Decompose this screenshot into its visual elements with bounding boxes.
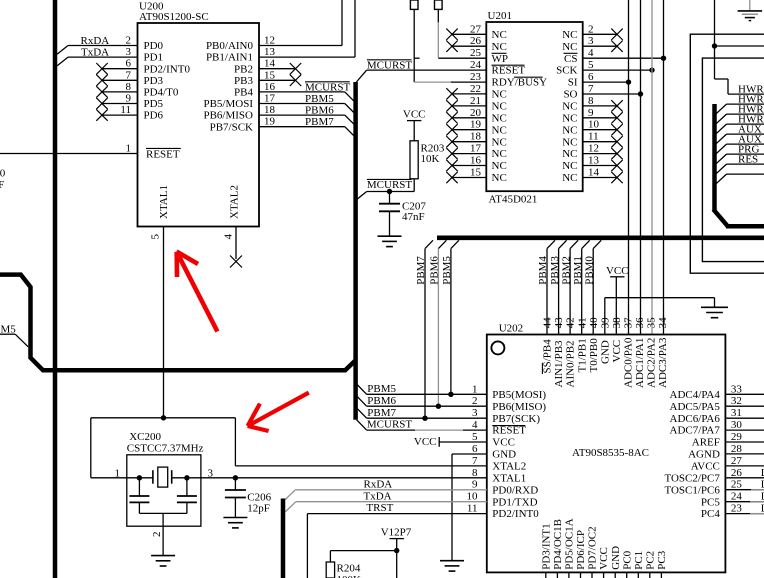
svg-text:PD5/OC1A: PD5/OC1A (564, 518, 576, 569)
annotation arrow 2 (248, 393, 309, 431)
bus entry (716, 114, 727, 124)
no-connect stub U201 pin 10 (583, 129, 617, 131)
wire SO vertical to U202 pin36 (640, 0, 642, 335)
wire HWR row (727, 103, 764, 105)
bus B3 (mid vertical) (353, 82, 358, 420)
svg-text:NC: NC (562, 160, 577, 172)
wire XTAL1 node horizontal (91, 417, 236, 419)
svg-text:21: 21 (470, 95, 481, 107)
svg-text:3: 3 (126, 46, 132, 58)
svg-text:F: F (0, 179, 4, 191)
svg-text:RESET: RESET (492, 65, 526, 77)
wire U200 pin12 to top (259, 45, 342, 47)
svg-text:PD0/RXD: PD0/RXD (492, 484, 538, 496)
svg-text:TOSC2/PC7: TOSC2/PC7 (664, 472, 720, 484)
svg-text:T1/PB1: T1/PB1 (576, 338, 588, 372)
wire RESET (U200 pin1) (0, 153, 138, 155)
svg-text:CS: CS (564, 53, 577, 65)
svg-text:NC: NC (492, 89, 507, 101)
wire TxDA (57, 57, 68, 66)
svg-text:PD0: PD0 (144, 40, 164, 52)
svg-text:C206: C206 (247, 491, 271, 503)
wire GND pin39 to ground (604, 298, 606, 335)
svg-text:PB2: PB2 (234, 63, 253, 75)
U202 bottom pin stub (568, 572, 570, 578)
wire GND (U202 pin6) (452, 453, 487, 455)
svg-text:PB7(SCK): PB7(SCK) (492, 413, 540, 425)
svg-text:5: 5 (150, 234, 162, 240)
svg-text:NC: NC (562, 41, 577, 53)
wire PBM3 vertical (559, 240, 567, 248)
wire PBM1 vertical (582, 240, 590, 248)
wire HWR row (727, 133, 764, 135)
svg-text:14: 14 (588, 167, 600, 179)
svg-text:VCC: VCC (414, 436, 437, 448)
svg-text:PB6/MISO: PB6/MISO (203, 110, 253, 122)
wire PBM0 vertical (593, 240, 601, 248)
wire PBM5 to U202 pin1 (357, 384, 367, 394)
svg-text:PD6/ICP: PD6/ICP (575, 530, 587, 570)
svg-text:PD5: PD5 (144, 98, 164, 110)
wire PBM7 (U200) (259, 126, 345, 128)
svg-text:NC: NC (492, 172, 507, 184)
svg-text:ADC0/PA0: ADC0/PA0 (623, 337, 635, 388)
no-connect stub U201 pin 2 (583, 33, 617, 35)
wire HWR row (727, 113, 764, 115)
wire U202 pin 32 right (725, 405, 764, 407)
svg-text:NC: NC (492, 112, 507, 124)
svg-text:2: 2 (588, 23, 594, 35)
svg-text:ADC5/PA5: ADC5/PA5 (670, 401, 721, 413)
net M5 bus entry (0, 333, 15, 335)
svg-text:RES_IN: RES_IN (738, 154, 764, 166)
frame outer (690, 34, 764, 273)
svg-text:15: 15 (264, 69, 276, 81)
svg-text:1: 1 (472, 383, 478, 395)
svg-text:3: 3 (588, 35, 594, 47)
svg-text:AREF: AREF (692, 437, 720, 449)
no-connect stub U201 pin 15 (452, 177, 486, 179)
svg-text:43: 43 (553, 317, 565, 329)
svg-text:36: 36 (634, 317, 646, 329)
svg-text:PBM3: PBM3 (549, 256, 561, 285)
ground (XC200 pin2) (151, 555, 175, 557)
svg-text:24: 24 (731, 491, 743, 503)
wire top right vertical (714, 0, 716, 79)
crystal element (152, 470, 154, 484)
wire CS (583, 57, 664, 59)
svg-text:VCC: VCC (492, 437, 515, 449)
svg-text:1: 1 (126, 143, 132, 155)
wire to XC200 pin1 (90, 418, 92, 478)
svg-text:35: 35 (646, 317, 658, 329)
svg-text:U201: U201 (488, 10, 512, 22)
overline BUSY (514, 76, 543, 78)
no-connect stub U201 pin 22 (452, 93, 486, 95)
svg-text:PBM0: PBM0 (583, 256, 595, 285)
svg-text:PC5: PC5 (701, 496, 720, 508)
svg-text:NC: NC (562, 112, 577, 124)
mcu IC U202 box (487, 335, 726, 573)
svg-text:VCC: VCC (598, 547, 610, 570)
no-connect stub U200 pin 14 (259, 68, 296, 70)
wire U202 pin 24 right (725, 501, 764, 503)
svg-text:41: 41 (576, 317, 588, 328)
wire U202 pin 33 right (725, 393, 764, 395)
svg-text:13: 13 (264, 46, 276, 58)
wire MCURST (RC node) (356, 192, 366, 200)
svg-text:100K: 100K (337, 574, 362, 578)
svg-text:1: 1 (115, 467, 121, 479)
wire HWR row (727, 153, 764, 155)
svg-text:9: 9 (588, 107, 594, 119)
U202 bottom pin stub (626, 572, 628, 578)
svg-text:PB3: PB3 (234, 75, 253, 87)
ground (U202 pin39) (701, 306, 728, 308)
svg-text:25: 25 (470, 47, 482, 59)
wire RxDA (57, 46, 68, 55)
svg-text:44: 44 (542, 317, 554, 329)
ground (C206) (223, 517, 247, 519)
svg-text:11: 11 (120, 104, 131, 116)
wire U202 pin 23 right (725, 513, 764, 515)
resistor R203 (410, 141, 418, 179)
node V12P7 junction (394, 548, 399, 553)
svg-text:18: 18 (470, 131, 482, 143)
svg-text:22: 22 (470, 83, 481, 95)
svg-text:GND: GND (492, 449, 516, 461)
svg-text:38: 38 (611, 317, 623, 329)
svg-text:37: 37 (623, 317, 635, 329)
svg-text:SCK: SCK (556, 65, 577, 77)
svg-text:RxDA: RxDA (81, 35, 110, 47)
wire U202 pin 28 right (725, 453, 764, 455)
svg-text:AT45D021: AT45D021 (489, 193, 538, 205)
overline RESET (492, 64, 525, 66)
wire TRST to U202 pin11 (306, 514, 308, 578)
wire WP net (437, 9, 439, 22)
svg-text:11: 11 (588, 131, 599, 143)
svg-text:PD6: PD6 (144, 110, 164, 122)
svg-text:7: 7 (472, 455, 478, 467)
svg-text:SI: SI (568, 77, 578, 89)
svg-text:23: 23 (470, 71, 482, 83)
svg-text:7: 7 (588, 83, 594, 95)
svg-text:PD4/OC1B: PD4/OC1B (552, 519, 564, 570)
svg-text:T0/PB0: T0/PB0 (588, 338, 600, 373)
no-connect stub U200 pin 9 (102, 103, 138, 105)
wire RDY/BUSY net (413, 9, 415, 82)
wire gray right pin24 (750, 501, 764, 503)
wire XTAL2 to U202 pin7 (235, 465, 486, 467)
bus B4 (main horizontal) (437, 236, 764, 241)
wire PBM4 vertical (547, 240, 555, 248)
svg-text:12: 12 (264, 35, 275, 47)
wire HWR row (727, 143, 764, 145)
svg-text:XTAL1: XTAL1 (492, 472, 526, 484)
svg-text:PBM6: PBM6 (305, 105, 334, 117)
capacitor internal right (186, 478, 188, 496)
svg-text:10: 10 (588, 119, 600, 131)
no-connect stub U201 pin 16 (452, 165, 486, 167)
svg-text:4: 4 (223, 234, 235, 240)
wire U200 pin13 to top (259, 56, 355, 58)
svg-text:19: 19 (264, 116, 276, 128)
svg-text:9: 9 (472, 479, 478, 491)
svg-text:33: 33 (731, 383, 743, 395)
wire PBM2 vertical (570, 240, 578, 248)
no-connect stub U200 pin 15 (259, 79, 296, 81)
svg-text:10: 10 (467, 491, 479, 503)
ground (C207) (378, 235, 402, 237)
bus B2 (left elbow to mid bus) (0, 275, 356, 371)
no-connect stub U200 pin 11 (102, 114, 138, 116)
svg-text:V12P7: V12P7 (381, 527, 412, 539)
svg-text:4: 4 (588, 47, 594, 59)
wire PBM6 (U200) (259, 114, 345, 116)
svg-text:ADC1/PA1: ADC1/PA1 (634, 338, 646, 388)
svg-text:RESET: RESET (492, 425, 526, 437)
svg-text:8: 8 (126, 81, 132, 93)
svg-text:NC: NC (562, 101, 577, 113)
wire U202 pin 27 right (725, 465, 764, 467)
no-connect stub U200 pin 6 (102, 68, 138, 70)
bus B1 (left vertical) (53, 0, 58, 578)
svg-text:PBM2: PBM2 (560, 256, 572, 285)
bus B6 (HWR) (712, 104, 717, 211)
wire XTAL1 row to U202 pin8 (172, 477, 487, 479)
no-connect stub U201 pin 13 (583, 165, 617, 167)
svg-text:NC: NC (492, 148, 507, 160)
wire U202 pin 31 right (725, 417, 764, 419)
svg-text:XTAL2: XTAL2 (492, 461, 526, 473)
bus entry (716, 154, 727, 164)
svg-text:XTAL1: XTAL1 (158, 185, 170, 219)
wire gray right pin25 (751, 489, 764, 491)
resistor R204 (326, 562, 334, 578)
svg-text:PBM7: PBM7 (415, 256, 427, 285)
svg-text:VCC: VCC (403, 109, 426, 121)
svg-text:27: 27 (731, 455, 743, 467)
svg-text:NC: NC (562, 29, 577, 41)
wire internal rail (139, 512, 187, 514)
svg-text:6: 6 (588, 71, 594, 83)
no-connect stub U200 pin 8 (102, 91, 138, 93)
bus entry (716, 174, 727, 184)
U202 pin1 indicator circle (491, 341, 504, 354)
svg-text:PB7/SCK: PB7/SCK (210, 121, 253, 133)
wire U202 pin 25 right (725, 489, 764, 491)
svg-text:PBM5: PBM5 (305, 93, 334, 105)
svg-text:AIN0/PB2: AIN0/PB2 (565, 340, 577, 387)
no-connect stub U201 pin 26 (452, 45, 486, 47)
svg-text:VCC: VCC (606, 265, 629, 277)
svg-text:2: 2 (151, 532, 163, 538)
svg-text:PBM1: PBM1 (572, 256, 584, 285)
wire PBM5 (U200) (259, 103, 345, 105)
ground (top right) (749, 0, 751, 10)
svg-text:6: 6 (472, 443, 478, 455)
svg-text:34: 34 (657, 317, 669, 329)
bus entry (716, 144, 727, 154)
svg-text:0: 0 (0, 167, 6, 179)
svg-text:8: 8 (472, 467, 478, 479)
svg-text:NC: NC (492, 41, 507, 53)
wire PBM6 vertical (438, 240, 446, 248)
op IC U200 box (138, 23, 260, 227)
svg-text:2: 2 (126, 35, 132, 47)
svg-text:26: 26 (470, 35, 482, 47)
wire HWR row (727, 123, 764, 125)
svg-text:6: 6 (126, 58, 132, 70)
svg-text:MCURST: MCURST (367, 179, 413, 191)
svg-text:PD3/INT1: PD3/INT1 (540, 523, 552, 569)
svg-text:18: 18 (264, 104, 276, 116)
wire CS vertical to U202 pin34 (663, 0, 665, 335)
svg-text:PD1/TXD: PD1/TXD (492, 496, 537, 508)
no-connect stub U201 pin 20 (452, 117, 486, 119)
no-connect stub U201 pin 11 (583, 141, 617, 143)
bus entry (716, 104, 727, 114)
wire U202 pin 30 right (725, 429, 764, 431)
svg-text:47nF: 47nF (402, 211, 425, 223)
no-connect stub U201 pin 18 (452, 141, 486, 143)
svg-text:PBM5: PBM5 (367, 383, 396, 395)
svg-text:26: 26 (731, 467, 743, 479)
U202 bottom pin stub (603, 572, 605, 578)
U202 bottom pin stub (660, 572, 662, 578)
svg-text:PC3: PC3 (656, 550, 668, 569)
svg-text:17: 17 (470, 143, 482, 155)
bus B5 (bottom left vertical) (281, 499, 286, 578)
wire gray right pin23 (750, 513, 764, 515)
overline RESET (U202) (492, 425, 525, 427)
flash IC U201 box (486, 22, 582, 191)
svg-text:PD1: PD1 (144, 52, 164, 64)
svg-text:RESET: RESET (146, 148, 180, 160)
no-connect stub U200 pin4 (235, 227, 237, 260)
svg-text:31: 31 (731, 407, 742, 419)
svg-text:ADC7/PA7: ADC7/PA7 (670, 425, 721, 437)
svg-text:AGND: AGND (688, 449, 720, 461)
svg-text:PBM6: PBM6 (429, 256, 441, 285)
svg-text:NC: NC (562, 172, 577, 184)
svg-text:16: 16 (264, 81, 276, 93)
wire HWR row (727, 173, 764, 175)
svg-text:PB0/AIN0: PB0/AIN0 (206, 40, 254, 52)
svg-text:PB6(MISO): PB6(MISO) (492, 401, 546, 413)
svg-text:AT90S1200-SC: AT90S1200-SC (139, 11, 209, 23)
no-connect stub U201 pin 27 (452, 33, 486, 35)
svg-text:PD2/INT0: PD2/INT0 (144, 63, 191, 75)
wire MCURST (U200) (259, 91, 345, 93)
svg-text:SS/PB4: SS/PB4 (542, 339, 554, 374)
wire SO (583, 93, 641, 95)
svg-text:NC: NC (562, 124, 577, 136)
U202 bottom pin stub (614, 572, 616, 578)
svg-text:7: 7 (126, 69, 132, 81)
no-connect stub U201 pin 17 (452, 153, 486, 155)
svg-text:30: 30 (731, 419, 743, 431)
svg-text:28: 28 (731, 443, 743, 455)
svg-text:VCC: VCC (611, 340, 623, 363)
svg-text:PB4: PB4 (234, 87, 253, 99)
wire TxDA to U202 pin10 (285, 502, 296, 512)
svg-text:SO: SO (563, 89, 577, 101)
wire MCURST to U201 pin24 (356, 70, 366, 82)
svg-text:WP: WP (492, 53, 509, 65)
svg-text:NC: NC (562, 136, 577, 148)
svg-text:NC: NC (492, 160, 507, 172)
svg-text:23: 23 (731, 503, 743, 515)
wire PBM7 to U202 pin3 (357, 408, 367, 418)
U202 bottom pin stub (637, 572, 639, 578)
bus entry (716, 134, 727, 144)
svg-text:16: 16 (470, 155, 482, 167)
svg-text:4: 4 (472, 419, 478, 431)
wire SI vertical to U202 pin37 (628, 0, 630, 335)
svg-text:12pF: 12pF (247, 503, 270, 515)
capacitor internal left (138, 478, 140, 496)
wire to U202 XTAL2 (234, 418, 236, 466)
svg-text:13: 13 (588, 155, 600, 167)
svg-text:AVCC: AVCC (691, 461, 720, 473)
connector stub J-B (435, 0, 443, 9)
resonator XC200 box (127, 455, 201, 526)
wire RxDA to U202 pin9 (285, 490, 295, 500)
wire PBM7 vertical (425, 240, 433, 248)
svg-text:PB5/MOSI: PB5/MOSI (203, 98, 253, 110)
svg-text:ADC6/PA6: ADC6/PA6 (670, 413, 721, 425)
svg-text:PC2: PC2 (644, 551, 656, 570)
wire PBM5 vertical (451, 240, 459, 248)
no-connect stub U201 pin 19 (452, 129, 486, 131)
svg-text:ADC3/PA3: ADC3/PA3 (657, 337, 669, 388)
svg-text:15: 15 (470, 167, 482, 179)
U202 bottom pin stub (556, 572, 558, 578)
U202 bottom pin stub (545, 572, 547, 578)
wire MCURST to U202 pin4 (357, 420, 367, 430)
svg-text:GND: GND (610, 546, 622, 570)
U202 bottom pin stub (591, 572, 593, 578)
no-connect stub U200 pin 7 (102, 79, 138, 81)
svg-text:XC200: XC200 (129, 431, 161, 443)
svg-text:ADC4/PA4: ADC4/PA4 (670, 389, 721, 401)
ground (U202 pin6) (440, 560, 464, 562)
svg-text:TxDA: TxDA (364, 490, 392, 502)
svg-text:GND: GND (599, 340, 611, 364)
svg-text:NC: NC (492, 29, 507, 41)
svg-text:NC: NC (492, 101, 507, 113)
annotation arrow 1 (177, 252, 218, 332)
svg-text:ADC2/PA2: ADC2/PA2 (646, 338, 658, 388)
no-connect stub U201 pin 21 (452, 105, 486, 107)
svg-text:11: 11 (467, 503, 478, 515)
svg-text:TxDA: TxDA (81, 47, 109, 59)
wire crystal to pin3 (184, 475, 189, 480)
svg-text:2: 2 (472, 395, 478, 407)
svg-text:25: 25 (731, 479, 743, 491)
svg-text:5: 5 (588, 59, 594, 71)
svg-text:R204: R204 (337, 562, 361, 574)
svg-text:TOSC1/PC6: TOSC1/PC6 (664, 484, 720, 496)
no-connect stub U201 pin 9 (583, 117, 617, 119)
svg-text:PD2/INT0: PD2/INT0 (492, 508, 539, 520)
svg-text:MCURST: MCURST (367, 419, 413, 431)
wire SCK (583, 69, 652, 71)
wire HWR row (727, 163, 764, 165)
svg-text:5: 5 (472, 431, 478, 443)
